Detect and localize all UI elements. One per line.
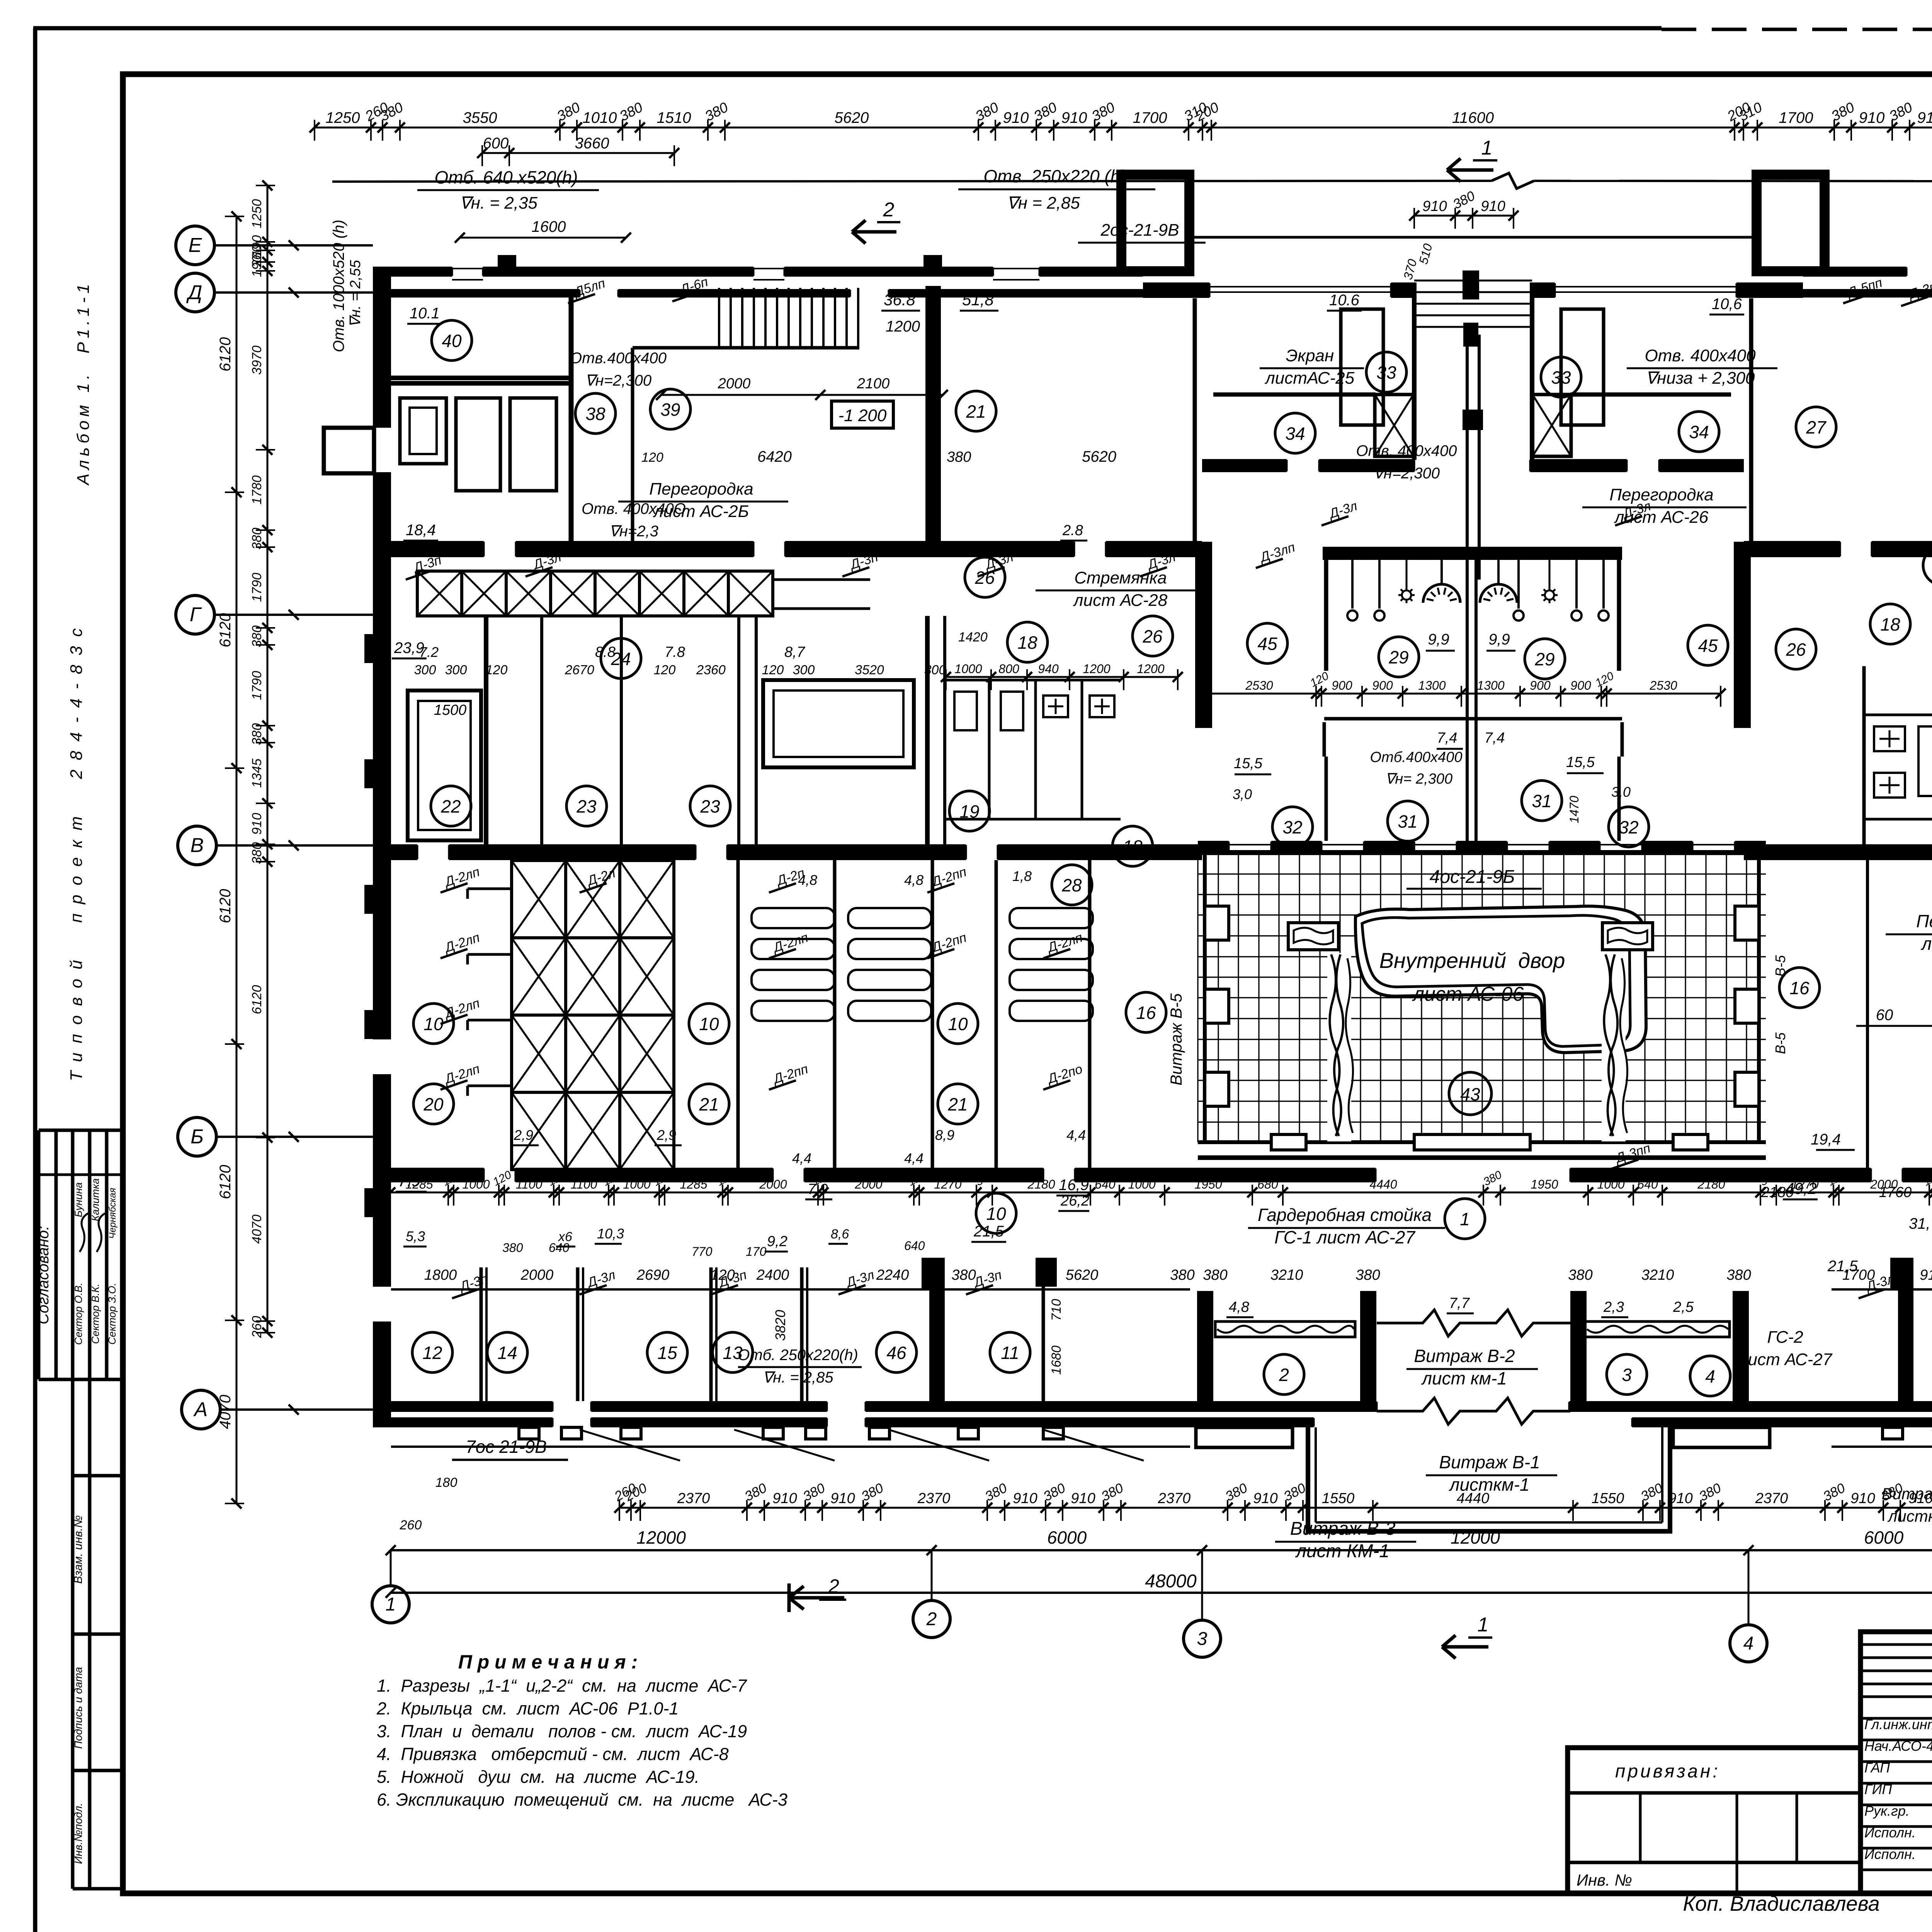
shower rooms lower partition (1324, 717, 1622, 721)
central shaft lower blocks (1463, 410, 1483, 430)
courtyard enclosing walls (1198, 851, 1766, 855)
svg-text:710: 710 (1049, 1299, 1064, 1321)
shower hangers and fixtures (1351, 560, 1354, 609)
svg-text:Отб. 250х220(h): Отб. 250х220(h) (738, 1347, 858, 1364)
svg-text:6120: 6120 (217, 337, 234, 372)
center north main wall (1143, 282, 1209, 298)
svg-text:3550: 3550 (463, 109, 497, 126)
svg-text:6420: 6420 (757, 448, 792, 465)
svg-text:31: 31 (1398, 811, 1417, 832)
svg-text:12000: 12000 (636, 1527, 686, 1548)
svg-text:14: 14 (497, 1343, 517, 1363)
svg-text:4,4: 4,4 (792, 1150, 811, 1166)
svg-text:910: 910 (1422, 198, 1447, 214)
locker banks left wing (736, 860, 740, 1168)
svg-text:1800: 1800 (424, 1267, 457, 1283)
col3/col4 wall stubs at row G (1195, 542, 1212, 728)
svg-text:900: 900 (1332, 679, 1352, 692)
svg-text:4,8: 4,8 (1229, 1299, 1249, 1315)
ventilation X-strip left wing (417, 571, 462, 616)
top main dimension chain (315, 127, 1932, 129)
svg-text:Перегородка: Перегородка (649, 480, 753, 498)
svg-text:лист АС-27: лист АС-27 (1737, 1350, 1833, 1369)
svg-text:1010: 1010 (583, 109, 617, 126)
svg-text:ГАП: ГАП (1864, 1760, 1890, 1776)
svg-text:9,2: 9,2 (767, 1233, 787, 1250)
svg-text:2000: 2000 (520, 1267, 554, 1283)
svg-text:1100: 1100 (571, 1177, 597, 1191)
svg-text:21,5: 21,5 (973, 1223, 1004, 1240)
svg-text:300: 300 (445, 663, 467, 677)
svg-text:300: 300 (414, 663, 436, 677)
svg-text:ГС-1 лист АС-27: ГС-1 лист АС-27 (1274, 1227, 1415, 1247)
svg-text:21: 21 (947, 1094, 968, 1114)
svg-text:640: 640 (904, 1239, 925, 1253)
svg-text:1: 1 (1460, 1209, 1470, 1229)
svg-text:∇н. = 2,85: ∇н. = 2,85 (762, 1369, 833, 1386)
svg-text:Отб.400х400: Отб.400х400 (1370, 749, 1463, 765)
svg-text:4,4: 4,4 (904, 1150, 923, 1166)
svg-text:10: 10 (986, 1204, 1006, 1224)
big X-hall left wing (512, 861, 566, 938)
svg-text:1950: 1950 (1531, 1177, 1558, 1191)
svg-text:2: 2 (926, 1609, 937, 1629)
svg-text:∇н = 2,85: ∇н = 2,85 (1007, 194, 1080, 213)
svg-text:38: 38 (585, 404, 605, 424)
svg-text:43: 43 (1460, 1084, 1480, 1104)
left portal block protruding above north wall (1121, 175, 1189, 271)
svg-text:8,6: 8,6 (831, 1227, 849, 1242)
svg-text:Перегородка: Перегородка (1609, 485, 1713, 504)
svg-text:1: 1 (1478, 1614, 1489, 1636)
svg-text:4,8: 4,8 (904, 872, 923, 888)
svg-text:Д: Д (186, 281, 202, 304)
svg-text:привязан:: привязан: (1615, 1761, 1720, 1782)
bottom rooms partitions left (480, 1267, 483, 1401)
svg-text:4440: 4440 (1457, 1490, 1490, 1507)
svg-text:лист АС-26: лист АС-26 (1920, 934, 1932, 954)
svg-text:380: 380 (947, 449, 971, 465)
svg-text:1780: 1780 (250, 475, 264, 505)
svg-text:1345: 1345 (250, 759, 264, 788)
svg-text:3210: 3210 (1641, 1267, 1674, 1283)
vestibule walls (1197, 1291, 1213, 1412)
svg-text:Е: Е (189, 234, 202, 257)
svg-text:32: 32 (1619, 817, 1638, 837)
corridor datum line left wing bottom (391, 1288, 1190, 1291)
room 40 partition (391, 376, 571, 380)
svg-text:2: 2 (883, 199, 895, 221)
thin wall x1637 (631, 348, 634, 541)
courtyard paving grid (1198, 853, 1766, 1142)
svg-text:Экран: Экран (1286, 346, 1334, 365)
svg-text:36.8: 36.8 (884, 291, 915, 309)
svg-text:Инв. №: Инв. № (1577, 1871, 1632, 1889)
courtyard top wall band with window slots (1198, 841, 1229, 855)
white boxed room in bay (left) (1341, 309, 1383, 425)
svg-text:лист АС-28: лист АС-28 (1073, 591, 1168, 610)
svg-text:380: 380 (1170, 1267, 1194, 1283)
svg-text:5. Ножной душ см. на лис: 5. Ножной душ см. на листе АС-19. (377, 1767, 699, 1787)
svg-text:1285: 1285 (680, 1177, 707, 1191)
svg-text:910: 910 (1917, 109, 1932, 126)
bottom chain 12000/6000 (391, 1549, 1932, 1551)
svg-text:29: 29 (1534, 649, 1554, 669)
svg-text:1420: 1420 (958, 630, 988, 645)
shower band chain (1202, 693, 1721, 695)
left wing chain near rooms 18/26 (946, 676, 1178, 678)
svg-text:2530: 2530 (1245, 679, 1273, 692)
svg-text:7.8: 7.8 (665, 644, 685, 660)
svg-text:2370: 2370 (917, 1490, 951, 1507)
small cells below room 40 (400, 398, 446, 464)
svg-text:2,9: 2,9 (656, 1127, 676, 1143)
svg-text:ГС-2: ГС-2 (1767, 1328, 1803, 1347)
svg-text:910: 910 (1061, 109, 1087, 126)
svg-text:51,8: 51,8 (962, 291, 994, 309)
svg-text:Рук.гр.: Рук.гр. (1864, 1803, 1910, 1819)
svg-text:910: 910 (830, 1490, 855, 1507)
svg-text:380: 380 (1203, 1267, 1227, 1283)
svg-text:180: 180 (435, 1475, 457, 1490)
svg-text:10,6: 10,6 (1712, 296, 1742, 313)
svg-text:5,3: 5,3 (406, 1228, 425, 1244)
svg-text:800: 800 (998, 662, 1019, 676)
svg-text:34: 34 (1285, 423, 1305, 444)
svg-text:Сектор О.В.: Сектор О.В. (73, 1282, 84, 1345)
top secondary chains (482, 152, 674, 154)
vitrage B-2 break marks (1395, 1310, 1488, 1336)
svg-text:300: 300 (924, 663, 946, 677)
svg-text:1270: 1270 (934, 1177, 961, 1191)
svg-text:1300: 1300 (1477, 679, 1504, 692)
svg-text:2,5: 2,5 (1673, 1299, 1694, 1315)
svg-text:910: 910 (1071, 1490, 1095, 1507)
svg-text:7,4: 7,4 (1485, 730, 1505, 746)
svg-text:1500: 1500 (434, 702, 467, 718)
svg-text:380: 380 (250, 626, 264, 648)
svg-text:Сектор З.О.: Сектор З.О. (106, 1283, 118, 1345)
svg-text:1790: 1790 (250, 573, 264, 602)
svg-text:48000: 48000 (1145, 1571, 1197, 1592)
wing porch pier feet and step lines (519, 1427, 539, 1439)
svg-text:2100: 2100 (857, 376, 890, 392)
WC cells block left (925, 616, 930, 844)
X-cell right of center shaft (1532, 395, 1571, 456)
svg-text:19: 19 (959, 801, 979, 821)
svg-text:6000: 6000 (1047, 1527, 1087, 1548)
section mark K1 bottom (1442, 1645, 1488, 1649)
svg-text:А: А (193, 1398, 208, 1421)
svg-text:27: 27 (1806, 417, 1827, 437)
svg-text:Внутренний двор: Внутренний двор (1379, 948, 1565, 973)
svg-text:Витраж В-5: Витраж В-5 (1167, 993, 1185, 1085)
svg-text:900: 900 (1530, 679, 1551, 692)
north wall right wing (1803, 267, 1906, 277)
svg-text:2000: 2000 (1870, 1177, 1898, 1191)
circle 43 (1449, 1072, 1492, 1115)
svg-text:1200: 1200 (1083, 662, 1110, 676)
south wall inner band (373, 1417, 553, 1427)
svg-text:3970: 3970 (250, 345, 264, 375)
svg-text:Г: Г (190, 604, 202, 626)
svg-text:2400: 2400 (756, 1267, 789, 1283)
svg-text:1470: 1470 (1567, 796, 1581, 823)
section mark K2 bottom (789, 1596, 844, 1600)
internal chain below row B (full width) (390, 1192, 1932, 1194)
svg-text:2370: 2370 (1755, 1490, 1788, 1507)
svg-text:120: 120 (762, 663, 784, 677)
svg-text:6120: 6120 (217, 1165, 234, 1199)
svg-text:∇низа + 2,300: ∇низа + 2,300 (1646, 369, 1755, 388)
section mark K2 top (852, 230, 896, 234)
svg-text:40: 40 (442, 331, 462, 351)
svg-text:680: 680 (1257, 1177, 1278, 1191)
svg-text:23: 23 (576, 796, 597, 816)
wall between 38-block and 39 (569, 294, 574, 541)
svg-text:3,0: 3,0 (1611, 784, 1631, 800)
west side entrance bump (324, 428, 374, 473)
svg-text:5620: 5620 (1066, 1267, 1099, 1283)
courtyard pools (1288, 923, 1338, 950)
svg-text:60: 60 (1876, 1007, 1893, 1024)
bottom rooms partitions right (1898, 1271, 1913, 1401)
svg-text:380: 380 (951, 1267, 976, 1283)
svg-text:1100: 1100 (516, 1177, 543, 1191)
svg-text:Альбом 1. Р1.1-1: Альбом 1. Р1.1-1 (74, 280, 93, 486)
svg-text:2000: 2000 (854, 1177, 882, 1191)
svg-text:Витраж В-1: Витраж В-1 (1439, 1452, 1540, 1472)
shower room side walls (1324, 560, 1328, 671)
row Г wall right wing (1744, 541, 1840, 557)
svg-text:2. Крыльца см. лист АС-06: 2. Крыльца см. лист АС-06 Р1.0-1 (376, 1699, 679, 1718)
svg-text:23: 23 (700, 796, 720, 816)
left dimension chains (267, 185, 269, 1333)
svg-text:1790: 1790 (250, 671, 264, 700)
svg-text:3210: 3210 (1270, 1267, 1303, 1283)
partition under rooms 33 (1213, 393, 1376, 397)
svg-text:260: 260 (400, 1518, 422, 1532)
svg-text:лист км-1: лист км-1 (1421, 1368, 1507, 1388)
svg-text:34: 34 (1689, 422, 1709, 442)
svg-text:7,7: 7,7 (1449, 1295, 1470, 1311)
row Г wall left wing (373, 541, 484, 557)
svg-text:10.6: 10.6 (1329, 292, 1360, 309)
svg-text:910: 910 (1013, 1490, 1037, 1507)
svg-text:33: 33 (1551, 367, 1571, 388)
bottom dimension chain 1 (619, 1507, 1932, 1509)
48000 line (391, 1592, 1932, 1594)
svg-text:Отв. 400х40О: Отв. 400х40О (582, 500, 686, 517)
svg-text:ГИП: ГИП (1864, 1781, 1892, 1797)
svg-text:15,5: 15,5 (1566, 754, 1595, 770)
svg-text:2240: 2240 (876, 1267, 909, 1283)
svg-text:1000: 1000 (462, 1177, 490, 1191)
svg-text:18,4: 18,4 (406, 522, 436, 539)
stair flight left wing (718, 288, 720, 347)
svg-text:Отв. 250х220 (h): Отв. 250х220 (h) (983, 166, 1126, 186)
svg-text:1250: 1250 (250, 199, 264, 228)
svg-text:900: 900 (1372, 679, 1393, 692)
svg-text:2360: 2360 (696, 663, 726, 677)
svg-text:В: В (190, 834, 204, 857)
svg-text:910: 910 (1253, 1490, 1277, 1507)
svg-text:7ос 21-9В: 7ос 21-9В (466, 1437, 547, 1457)
wood-grain strips in courtyard (1327, 953, 1351, 1141)
svg-text:1000: 1000 (1597, 1177, 1624, 1191)
row В wall right wing (1744, 844, 1932, 860)
outer sheet border (L-shape) (33, 28, 37, 1932)
west exterior wall (373, 267, 391, 428)
svg-text:18: 18 (1880, 614, 1900, 634)
privyazan box (1568, 1748, 1861, 1893)
svg-text:45: 45 (1257, 634, 1277, 654)
svg-text:120: 120 (486, 663, 508, 677)
svg-text:1600: 1600 (532, 218, 566, 235)
svg-text:∇н=2,3: ∇н=2,3 (609, 523, 658, 540)
svg-text:380: 380 (1726, 1267, 1751, 1283)
svg-text:2,3: 2,3 (1603, 1299, 1624, 1315)
svg-text:8,9: 8,9 (935, 1127, 954, 1143)
svg-text:46: 46 (886, 1343, 906, 1363)
svg-text:Коп. Владиславлева: Коп. Владиславлева (1683, 1892, 1879, 1915)
wardrobe counters (squiggle) (1215, 1321, 1355, 1337)
top third line with break mark (332, 181, 1492, 182)
planting bed blob (inner court island, double irregular outline) (1355, 906, 1646, 1053)
svg-text:листкм 1: листкм 1 (1887, 1507, 1932, 1525)
svg-text:1300: 1300 (1418, 679, 1446, 692)
svg-text:1000: 1000 (954, 662, 982, 676)
center corridor wall y1200 (1202, 459, 1287, 472)
svg-text:1270: 1270 (1791, 1177, 1818, 1191)
dim line 15030 (1856, 1025, 1932, 1027)
corridor datum line right wing bottom (1832, 1288, 1932, 1291)
svg-text:1950: 1950 (1194, 1177, 1222, 1191)
svg-text:380: 380 (250, 528, 264, 550)
svg-text:1510: 1510 (657, 109, 691, 126)
svg-text:Взам. инв.№: Взам. инв.№ (72, 1515, 85, 1583)
svg-text:Отв. 1000х520 (h): Отв. 1000х520 (h) (330, 219, 347, 352)
svg-text:2180: 2180 (1027, 1177, 1055, 1191)
svg-text:15: 15 (657, 1343, 677, 1363)
svg-text:32: 32 (1282, 817, 1302, 837)
room 22 double-line box (408, 690, 481, 840)
svg-text:1: 1 (386, 1594, 396, 1615)
svg-text:7,4: 7,4 (1437, 730, 1458, 746)
svg-text:Типовой проект 284-4-83с: Типовой проект 284-4-83с (67, 619, 86, 1081)
central porch (vitrage B-1) (1308, 1427, 1670, 1531)
svg-text:6. Экспликацию помещений см.: 6. Экспликацию помещений см. на листе АС… (377, 1790, 787, 1810)
svg-text:2370: 2370 (1158, 1490, 1191, 1507)
svg-text:1680: 1680 (1049, 1345, 1064, 1375)
svg-text:10.1: 10.1 (410, 305, 440, 322)
side porch left of center (1196, 1427, 1293, 1447)
svg-text:380: 380 (1355, 1267, 1380, 1283)
svg-text:22: 22 (440, 796, 461, 816)
section mark K1 top (1447, 168, 1493, 172)
svg-text:∇н. = 2,35: ∇н. = 2,35 (459, 194, 537, 213)
svg-text:Витраж В-2: Витраж В-2 (1414, 1346, 1515, 1366)
svg-text:2530: 2530 (1649, 679, 1677, 692)
svg-text:4. Привязка отберстий - см.: 4. Привязка отберстий - см. лист АС-8 (377, 1744, 729, 1764)
svg-text:4070: 4070 (250, 1214, 264, 1244)
svg-text:910: 910 (1859, 109, 1885, 126)
svg-text:Бунина: Бунина (73, 1182, 84, 1217)
svg-text:Отв. 400х400: Отв. 400х400 (1645, 346, 1756, 365)
X-cell left of center shaft (1375, 395, 1413, 456)
svg-text:1250: 1250 (326, 109, 360, 126)
svg-text:26: 26 (1786, 639, 1806, 660)
svg-text:910: 910 (1920, 1267, 1932, 1283)
courtyard bottom outer wall (1198, 1155, 1766, 1160)
svg-text:4440: 4440 (1369, 1177, 1397, 1191)
svg-text:Б: Б (190, 1126, 204, 1148)
svg-text:2370: 2370 (677, 1490, 710, 1507)
svg-text:2.8: 2.8 (1062, 522, 1083, 539)
svg-text:4ос-21-9Б: 4ос-21-9Б (1430, 867, 1515, 887)
svg-text:15,5: 15,5 (1234, 755, 1263, 772)
row Б wall (373, 1168, 484, 1182)
svg-text:2000: 2000 (718, 376, 751, 392)
svg-text:6120: 6120 (217, 889, 234, 923)
svg-text:5620: 5620 (835, 109, 869, 126)
svg-text:3,0: 3,0 (1233, 786, 1252, 802)
-1200 level box (832, 401, 893, 428)
svg-text:8,7: 8,7 (784, 644, 806, 660)
svg-text:910: 910 (1850, 1490, 1875, 1507)
svg-text:листАС-25: листАС-25 (1264, 369, 1355, 388)
svg-text:Исполн.: Исполн. (1864, 1825, 1916, 1840)
svg-text:16,9: 16,9 (1059, 1177, 1089, 1194)
svg-text:31,7: 31,7 (1909, 1215, 1932, 1232)
revision/signature table (1861, 1632, 1932, 1893)
svg-text:1700: 1700 (1133, 109, 1167, 126)
svg-text:6000: 6000 (1864, 1527, 1904, 1548)
svg-text:18: 18 (1017, 633, 1037, 653)
svg-text:910: 910 (1003, 109, 1029, 126)
stair shaft below north wall at center (1412, 282, 1417, 460)
svg-text:900: 900 (1570, 679, 1591, 692)
svg-text:2,9: 2,9 (514, 1127, 533, 1143)
svg-text:∇н=2,300: ∇н=2,300 (585, 372, 651, 389)
svg-text:21: 21 (966, 401, 986, 422)
svg-text:16: 16 (1136, 1003, 1156, 1023)
svg-text:28: 28 (1061, 875, 1082, 895)
svg-text:2: 2 (1279, 1365, 1289, 1385)
svg-text:1000: 1000 (623, 1177, 650, 1191)
svg-text:1200: 1200 (886, 318, 920, 335)
svg-text:В-5: В-5 (1772, 1032, 1788, 1054)
svg-text:Сектор В.К.: Сектор В.К. (90, 1284, 101, 1344)
svg-text:640: 640 (1637, 1177, 1658, 1191)
svg-text:4: 4 (1705, 1366, 1715, 1386)
svg-text:П р и м е ч а н и я :: П р и м е ч а н и я : (458, 1651, 638, 1673)
svg-text:910: 910 (1481, 198, 1505, 214)
svg-text:Инв.№подл.: Инв.№подл. (72, 1803, 84, 1864)
svg-text:1550: 1550 (1592, 1490, 1624, 1507)
svg-text:20: 20 (423, 1094, 444, 1114)
svg-text:29: 29 (1388, 647, 1408, 667)
svg-text:190: 190 (250, 255, 264, 277)
svg-text:39: 39 (660, 400, 680, 420)
room 8,7 boxed shaft (763, 680, 914, 767)
svg-text:2690: 2690 (636, 1267, 670, 1283)
svg-text:Отв. 400х400: Отв. 400х400 (1356, 442, 1457, 459)
svg-text:26,2: 26,2 (1060, 1193, 1089, 1209)
svg-text:Калитка: Калитка (90, 1178, 101, 1221)
svg-text:6120: 6120 (217, 613, 234, 648)
left wing rooms 22/23/24 partitions (484, 616, 488, 844)
